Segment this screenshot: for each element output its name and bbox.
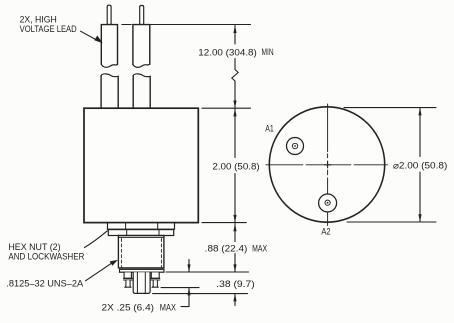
extension line y293.6 — [153, 293, 248, 295]
arrow .25 bottom (up onto y287.6) — [187, 288, 190, 296]
leader arrowhead thread callout — [110, 260, 118, 266]
leader: hex nut — [85, 231, 108, 248]
extension line circle bottom — [347, 221, 436, 223]
right lead wire — [140, 6, 144, 25]
arrow circle dim bottom (down) — [418, 214, 421, 222]
svg-text:MAX: MAX — [252, 244, 267, 254]
arrow 12.00 top (up) — [233, 25, 236, 33]
terminal A2 — [319, 194, 337, 212]
left terminal block — [124, 272, 131, 278]
washer plate 2 (lockwasher) — [108, 230, 173, 236]
left lead lower tube — [101, 76, 118, 108]
arrow 2.00 top (up) — [233, 109, 236, 117]
right lead lower tube — [133, 76, 150, 108]
dim arrows x189 (.25) — [181, 260, 189, 307]
arrow .38 bottom (up onto y293.6) — [233, 294, 236, 302]
arrow .88/.38 shared (down onto y272) — [233, 264, 236, 272]
lower flange strip — [120, 269, 164, 272]
svg-text:VOLTAGE LEAD: VOLTAGE LEAD — [20, 24, 77, 34]
svg-text:.8125–32 UNS–2A: .8125–32 UNS–2A — [6, 278, 83, 288]
dimension line x235: .88 segment — [234, 224, 236, 272]
arrow .25 top (down onto y272) — [187, 264, 190, 272]
svg-text:.38 (9.7): .38 (9.7) — [216, 279, 254, 289]
svg-text:.88 (22.4): .88 (22.4) — [205, 244, 248, 254]
svg-text:A1: A1 — [265, 123, 274, 133]
extension line body bottom right — [202, 222, 246, 224]
centerline horizontal — [266, 164, 388, 166]
terminal A1 — [287, 138, 304, 155]
arrowheads — [94, 25, 421, 301]
leader arrowhead high voltage lead — [94, 36, 103, 44]
svg-text:A2: A2 — [321, 226, 330, 236]
left lead wire — [107, 5, 111, 24]
svg-text:MAX: MAX — [160, 303, 176, 313]
svg-text:2X .25 (6.4): 2X .25 (6.4) — [102, 303, 155, 313]
svg-text:⌀2.00 (50.8): ⌀2.00 (50.8) — [393, 161, 447, 171]
extension line body top right — [202, 107, 251, 109]
arrow .88 top (up) — [233, 224, 236, 232]
leader: high voltage lead arrow — [81, 31, 99, 41]
dimension line x420 — [419, 108, 421, 222]
extension line y24.5 (lead top reference) — [122, 24, 251, 26]
dimension line x235: 2.00 segment — [234, 109, 236, 223]
right lead upper tube — [133, 25, 150, 65]
hex nut / bushing — [118, 236, 163, 268]
arrow 2.00 bottom (down) — [233, 215, 236, 223]
svg-text:AND LOCKWASHER: AND LOCKWASHER — [8, 251, 84, 261]
dimension line x235: .38 lower tail — [234, 294, 236, 306]
arrow 12.00 bottom (down) — [233, 101, 236, 109]
svg-text:2.00 (50.8): 2.00 (50.8) — [212, 161, 259, 171]
svg-text:HEX NUT (2): HEX NUT (2) — [8, 242, 60, 252]
center cross mark — [325, 161, 331, 168]
washer plate 1 — [108, 223, 175, 229]
leader: thread callout arrow — [86, 263, 113, 281]
left lead upper tube — [101, 25, 117, 65]
extension line y272 — [166, 271, 249, 273]
svg-text:MIN: MIN — [262, 47, 274, 57]
extension line circle top — [344, 107, 436, 109]
arrow circle dim top (up) — [418, 108, 421, 116]
svg-text:12.00 (304.8): 12.00 (304.8) — [198, 47, 257, 57]
hidden thread lines — [121, 239, 161, 268]
centerline vertical — [327, 104, 329, 226]
top view: main circle — [269, 107, 384, 222]
dimension line x235: 12.00 segment — [234, 26, 236, 45]
center stud — [133, 272, 150, 293]
right terminal block — [151, 272, 159, 278]
capacitor body (side view) — [84, 108, 198, 222]
extension line y287.5 — [161, 287, 199, 289]
